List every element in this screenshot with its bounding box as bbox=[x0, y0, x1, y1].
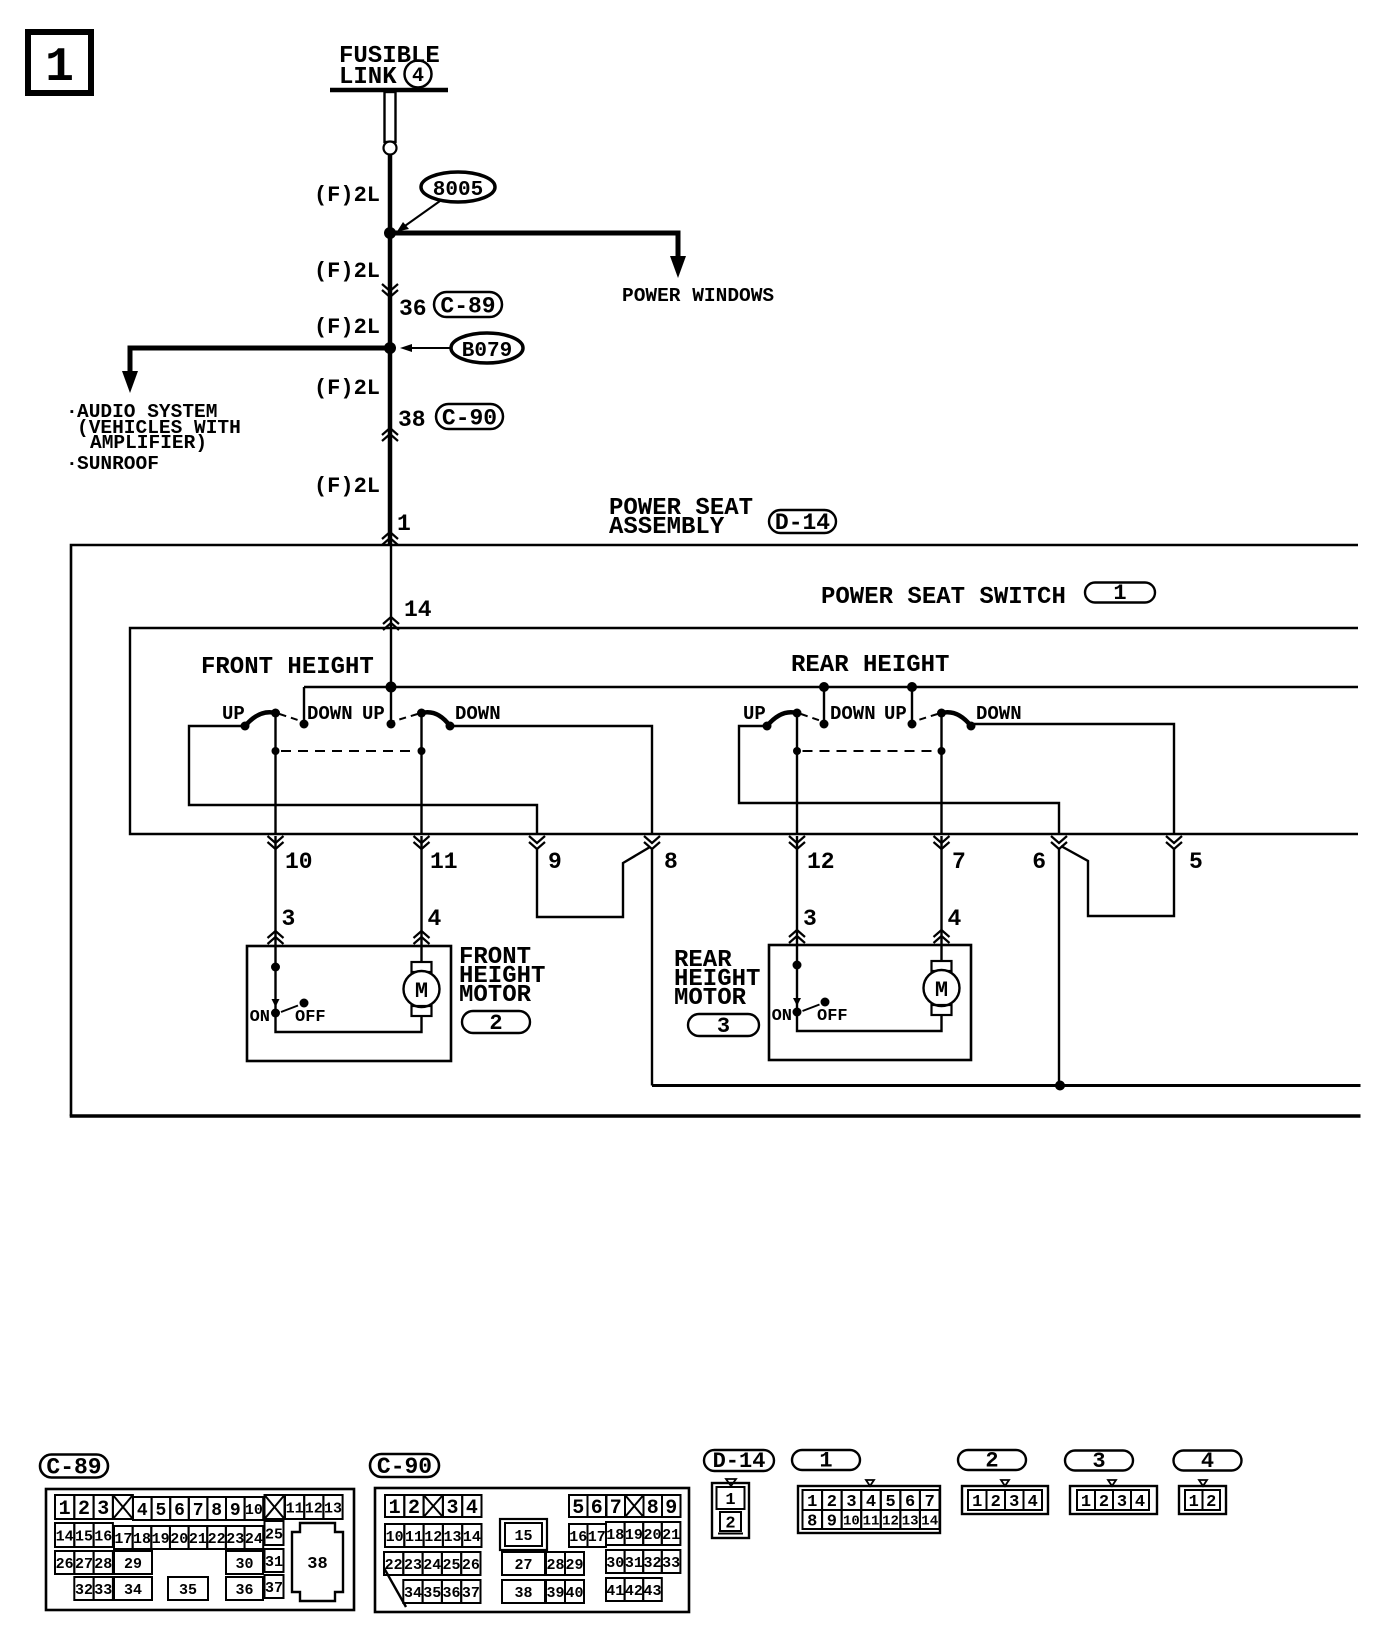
front motor return wire bbox=[276, 1013, 422, 1032]
svg-text:20: 20 bbox=[643, 1527, 661, 1544]
connector ref C-90 bbox=[436, 404, 503, 429]
svg-text:UP: UP bbox=[362, 703, 385, 725]
svg-text:5: 5 bbox=[155, 1501, 166, 1521]
wire: rear-left pivot down (pin 12) bbox=[796, 713, 798, 834]
svg-text:36: 36 bbox=[235, 1582, 253, 1599]
junction B079 bbox=[384, 342, 396, 354]
rear switch UP-contact return path bbox=[739, 726, 1059, 834]
svg-text:14: 14 bbox=[921, 1514, 938, 1530]
connector 2 marker bbox=[1001, 1480, 1009, 1486]
junction pin14/bus bbox=[386, 682, 397, 693]
connector C-89 body bbox=[46, 1489, 354, 1610]
wire: bus to front-right UP contact bbox=[390, 687, 392, 725]
svg-text:23: 23 bbox=[226, 1531, 244, 1548]
gang dot rear-right bbox=[938, 747, 946, 755]
chevron pin 9 bbox=[529, 836, 545, 849]
svg-text:38: 38 bbox=[514, 1585, 532, 1602]
svg-text:41: 41 bbox=[606, 1583, 624, 1600]
chevron assembly pin 1 bbox=[382, 532, 398, 545]
svg-text:2: 2 bbox=[408, 1497, 420, 1520]
svg-text:21: 21 bbox=[189, 1531, 207, 1548]
connector C-90 body bbox=[375, 1488, 689, 1612]
splice label 8005 bbox=[421, 172, 495, 202]
svg-text:D-14: D-14 bbox=[713, 1449, 766, 1474]
svg-text:11: 11 bbox=[863, 1514, 880, 1530]
rear motor M bbox=[940, 945, 942, 961]
svg-text:ON: ON bbox=[250, 1008, 270, 1027]
svg-text:1: 1 bbox=[1189, 1493, 1199, 1512]
circled 4 bbox=[405, 61, 432, 88]
svg-text:MOTOR: MOTOR bbox=[674, 985, 747, 1012]
svg-text:17: 17 bbox=[588, 1529, 606, 1546]
chevron pin 5 bbox=[1166, 836, 1182, 849]
wire: branch to audio system / sunroof bbox=[130, 348, 390, 372]
svg-text:19: 19 bbox=[152, 1531, 170, 1548]
C-89 pin 38 (large) bbox=[292, 1523, 343, 1601]
svg-text:9: 9 bbox=[665, 1497, 677, 1520]
svg-text:19: 19 bbox=[625, 1527, 643, 1544]
connector 4 label bbox=[1174, 1451, 1242, 1471]
stub: bus to front-left DOWN contact bbox=[303, 687, 305, 725]
page frame box 1 bbox=[28, 32, 91, 93]
front motor internal circuit bbox=[274, 946, 276, 1009]
svg-text:8: 8 bbox=[211, 1501, 222, 1521]
switch rear-right (rests on DOWN) bbox=[942, 712, 972, 726]
svg-text:FRONT HEIGHT: FRONT HEIGHT bbox=[201, 654, 374, 681]
svg-text:C-90: C-90 bbox=[442, 406, 497, 432]
front ON contact bbox=[271, 1009, 280, 1018]
wire 9 jog to pin 8 bbox=[537, 847, 650, 917]
rear limit contact marks bbox=[793, 998, 801, 1006]
svg-text:3: 3 bbox=[282, 906, 296, 932]
svg-text:18: 18 bbox=[133, 1531, 151, 1548]
chevron rear motor pin 4 bbox=[934, 930, 950, 943]
svg-text:8: 8 bbox=[647, 1497, 659, 1520]
connector 2 body bbox=[962, 1486, 1048, 1514]
chevron pin 6 bbox=[1051, 836, 1067, 849]
svg-text:(F)2L: (F)2L bbox=[314, 474, 380, 499]
C-89 row4 pins 32-37 bbox=[74, 1577, 93, 1600]
svg-text:36: 36 bbox=[443, 1585, 461, 1602]
svg-text:3: 3 bbox=[447, 1497, 459, 1520]
C-89 row1 pins 1-13 bbox=[55, 1495, 74, 1519]
C-90 bottom-left key notch bbox=[384, 1568, 406, 1607]
svg-text:M: M bbox=[415, 979, 428, 1004]
connector 1 pins 1-14 bbox=[803, 1490, 823, 1510]
gang dot front-left bbox=[272, 747, 280, 755]
fusible link end circle bbox=[384, 142, 397, 155]
svg-text:3: 3 bbox=[803, 906, 817, 932]
connector C-90 label bbox=[370, 1454, 439, 1477]
svg-text:AMPLIFIER): AMPLIFIER) bbox=[90, 432, 207, 454]
svg-text:1: 1 bbox=[1113, 581, 1126, 606]
wire: pin1 to pin14 (inside assembly) bbox=[390, 545, 392, 687]
svg-text:SUNROOF: SUNROOF bbox=[77, 453, 159, 475]
svg-text:5: 5 bbox=[1189, 849, 1203, 875]
chevron front motor pin 3 bbox=[268, 931, 284, 944]
svg-text:1: 1 bbox=[389, 1497, 401, 1520]
svg-text:38: 38 bbox=[398, 407, 426, 433]
svg-text:24: 24 bbox=[245, 1531, 263, 1548]
connector 4 pins 1-2 bbox=[1185, 1490, 1203, 1510]
C-90 row3 pins 22-33 bbox=[384, 1552, 403, 1575]
svg-text:14: 14 bbox=[404, 597, 432, 623]
wire 12 to rear motor pin 3 bbox=[796, 836, 798, 945]
svg-text:28: 28 bbox=[546, 1557, 564, 1574]
svg-text:39: 39 bbox=[546, 1585, 564, 1602]
chevron in-connector C-89 pin36 bbox=[382, 284, 398, 297]
connector 3 pins 1-4 bbox=[1077, 1490, 1095, 1510]
svg-text:6: 6 bbox=[591, 1497, 603, 1520]
svg-text:27: 27 bbox=[75, 1556, 93, 1573]
rear limit switch arm bbox=[803, 1005, 820, 1012]
junction wire6/wire8 bbox=[1055, 1081, 1065, 1091]
svg-text:17: 17 bbox=[114, 1531, 132, 1548]
svg-text:2: 2 bbox=[725, 1515, 735, 1534]
junction rear limit switch bbox=[793, 961, 802, 970]
svg-text:UP: UP bbox=[884, 703, 907, 725]
svg-text:4: 4 bbox=[948, 906, 962, 932]
svg-text:C-89: C-89 bbox=[440, 294, 495, 320]
svg-text:4: 4 bbox=[1135, 1493, 1145, 1512]
rear DOWN-contact wire to pin 5 bbox=[971, 724, 1174, 834]
wire 11 to front motor pin 4 bbox=[420, 836, 422, 945]
svg-text:27: 27 bbox=[514, 1557, 532, 1574]
chevron switch pin 14 bbox=[383, 617, 399, 630]
svg-text:35: 35 bbox=[423, 1585, 441, 1602]
svg-text:B079: B079 bbox=[462, 340, 512, 363]
svg-text:C-89: C-89 bbox=[46, 1454, 101, 1480]
svg-text:MOTOR: MOTOR bbox=[459, 982, 532, 1009]
chevron pin 7 bbox=[934, 836, 950, 849]
svg-text:1: 1 bbox=[725, 1491, 735, 1510]
svg-text:REAR HEIGHT: REAR HEIGHT bbox=[791, 652, 949, 679]
svg-text:OFF: OFF bbox=[295, 1008, 326, 1027]
svg-text:2: 2 bbox=[1099, 1493, 1109, 1512]
svg-text:31: 31 bbox=[625, 1555, 643, 1572]
svg-text:(F)2L: (F)2L bbox=[314, 183, 380, 208]
svg-text:1: 1 bbox=[819, 1448, 832, 1473]
svg-text:3: 3 bbox=[1117, 1493, 1127, 1512]
chevron pin 8 bbox=[644, 836, 660, 849]
wire 7 to rear motor pin 4 bbox=[940, 836, 942, 945]
svg-text:8005: 8005 bbox=[433, 179, 483, 202]
connector 4 marker bbox=[1199, 1480, 1207, 1486]
svg-text:26: 26 bbox=[56, 1556, 74, 1573]
svg-text:38: 38 bbox=[307, 1555, 327, 1574]
splice label B079 bbox=[451, 333, 523, 363]
wire: branch to power windows bbox=[390, 233, 678, 258]
svg-text:14: 14 bbox=[463, 1529, 481, 1546]
svg-text:UP: UP bbox=[743, 703, 766, 725]
stub: bus to rear-left DOWN contact bbox=[823, 687, 825, 725]
fusible link bus bar bbox=[330, 88, 448, 93]
svg-text:UP: UP bbox=[222, 703, 245, 725]
svg-text:4: 4 bbox=[1028, 1493, 1038, 1512]
arrow from B079 to junction bbox=[406, 347, 451, 349]
connector 2 label bbox=[958, 1450, 1026, 1470]
svg-text:5: 5 bbox=[572, 1497, 584, 1520]
svg-text:3: 3 bbox=[97, 1498, 109, 1521]
svg-text:ON: ON bbox=[772, 1007, 792, 1026]
svg-text:18: 18 bbox=[606, 1527, 624, 1544]
wire 10 to front motor pin 3 bbox=[274, 836, 276, 945]
svg-text:12: 12 bbox=[807, 849, 835, 875]
chevron pin 10 bbox=[268, 836, 284, 849]
svg-text:35: 35 bbox=[179, 1582, 197, 1599]
front limit switch arm bbox=[281, 1006, 298, 1013]
chevron pin 11 bbox=[414, 836, 430, 849]
svg-text:(F)2L: (F)2L bbox=[314, 376, 380, 401]
chevron in-connector C-90 pin38 bbox=[382, 428, 398, 441]
svg-text:DOWN: DOWN bbox=[830, 703, 876, 725]
svg-text:2: 2 bbox=[991, 1493, 1001, 1512]
svg-text:37: 37 bbox=[462, 1585, 480, 1602]
wire: splice 8005 to splice B079 bbox=[388, 233, 393, 350]
svg-text:9: 9 bbox=[827, 1513, 837, 1532]
svg-text:9: 9 bbox=[548, 849, 562, 875]
arrowhead power windows bbox=[670, 256, 686, 278]
svg-text:13: 13 bbox=[444, 1529, 462, 1546]
svg-text:13: 13 bbox=[324, 1500, 342, 1517]
junction bus/rear-right stub bbox=[907, 682, 917, 692]
svg-text:9: 9 bbox=[230, 1501, 241, 1521]
svg-text:10: 10 bbox=[386, 1529, 404, 1546]
arrowhead audio branch bbox=[122, 371, 138, 393]
power seat assembly box bbox=[71, 545, 1358, 1116]
svg-text:30: 30 bbox=[606, 1555, 624, 1572]
svg-text:POWER SEAT SWITCH: POWER SEAT SWITCH bbox=[821, 584, 1066, 611]
junction bus/rear-left stub bbox=[819, 682, 829, 692]
svg-text:10: 10 bbox=[285, 849, 313, 875]
front limit contact marks bbox=[272, 999, 280, 1007]
svg-text:25: 25 bbox=[443, 1557, 461, 1574]
svg-text:11: 11 bbox=[286, 1500, 304, 1517]
front switch UP-contact return path bbox=[189, 726, 537, 834]
svg-text:ASSEMBLY: ASSEMBLY bbox=[609, 514, 725, 541]
rear motor internal circuit bbox=[796, 945, 798, 1008]
C-90 pin 15 keyed cell bbox=[500, 1519, 547, 1550]
svg-text:12: 12 bbox=[305, 1500, 323, 1517]
svg-text:C-90: C-90 bbox=[377, 1454, 432, 1480]
rear OFF contact bbox=[821, 998, 830, 1007]
connector 3 label bbox=[1065, 1451, 1133, 1471]
connector 3 marker bbox=[1108, 1480, 1116, 1486]
svg-text:11: 11 bbox=[405, 1529, 423, 1546]
svg-text:10: 10 bbox=[843, 1514, 860, 1530]
svg-text:1: 1 bbox=[1081, 1493, 1091, 1512]
junction front limit switch bbox=[271, 963, 280, 972]
switch front-left (rests on UP) bbox=[245, 712, 276, 726]
connector 2 pins 1-4 bbox=[968, 1490, 987, 1510]
motor ref 2 bbox=[462, 1011, 530, 1033]
svg-text:1: 1 bbox=[972, 1493, 982, 1512]
svg-text:4: 4 bbox=[137, 1501, 148, 1521]
svg-text:OFF: OFF bbox=[817, 1007, 848, 1026]
svg-text:2: 2 bbox=[1206, 1493, 1216, 1512]
rear height motor box bbox=[769, 945, 971, 1060]
connector 4 body bbox=[1179, 1486, 1226, 1514]
svg-text:43: 43 bbox=[643, 1583, 661, 1600]
front DOWN-contact wire to pin 8 bbox=[450, 726, 652, 834]
gang dashed link front bbox=[281, 750, 416, 752]
svg-text:37: 37 bbox=[265, 1580, 283, 1597]
svg-text:30: 30 bbox=[235, 1556, 253, 1573]
svg-text:DOWN: DOWN bbox=[976, 703, 1022, 725]
svg-text:12: 12 bbox=[882, 1514, 899, 1530]
svg-text:·: · bbox=[66, 453, 78, 475]
svg-text:1: 1 bbox=[45, 41, 74, 95]
chevron front motor pin 4 bbox=[414, 931, 430, 944]
front motor M bbox=[420, 946, 422, 962]
gang dot front-right bbox=[418, 747, 426, 755]
C-90 row2 pins 10-21 bbox=[385, 1524, 404, 1547]
svg-text:36: 36 bbox=[399, 296, 427, 322]
switch ref 1 bbox=[1085, 583, 1155, 603]
wire: B079 to power seat assembly bbox=[388, 348, 393, 545]
svg-text:2: 2 bbox=[489, 1011, 502, 1036]
svg-text:DOWN: DOWN bbox=[307, 703, 353, 725]
svg-text:23: 23 bbox=[404, 1557, 422, 1574]
connector 1 marker bbox=[866, 1480, 874, 1486]
svg-text:33: 33 bbox=[94, 1582, 112, 1599]
svg-text:22: 22 bbox=[208, 1531, 226, 1548]
svg-text:1: 1 bbox=[59, 1498, 71, 1521]
chevron rear motor pin 3 bbox=[789, 930, 805, 943]
connector D-14 label bbox=[704, 1450, 774, 1471]
switch front-right (rests on DOWN) bbox=[422, 712, 451, 726]
svg-text:29: 29 bbox=[124, 1556, 142, 1573]
connector 3 body bbox=[1070, 1486, 1157, 1514]
svg-text:(F)2L: (F)2L bbox=[314, 315, 380, 340]
svg-text:4: 4 bbox=[466, 1497, 478, 1520]
svg-text:42: 42 bbox=[625, 1583, 643, 1600]
svg-text:32: 32 bbox=[643, 1555, 661, 1572]
svg-text:34: 34 bbox=[404, 1585, 422, 1602]
svg-text:16: 16 bbox=[94, 1528, 112, 1545]
rear motor return wire bbox=[797, 1012, 942, 1031]
svg-text:25: 25 bbox=[265, 1526, 283, 1543]
svg-text:2: 2 bbox=[985, 1448, 998, 1473]
svg-text:·: · bbox=[66, 401, 78, 423]
svg-text:4: 4 bbox=[1201, 1449, 1214, 1474]
chevron pin 12 bbox=[789, 836, 805, 849]
front height motor box bbox=[247, 946, 451, 1061]
svg-text:LINK: LINK bbox=[339, 64, 397, 91]
C-90 row4 pins 34-43 bbox=[403, 1580, 422, 1603]
wire: rear-right pivot down (pin 7) bbox=[940, 713, 942, 834]
gang dot rear-left bbox=[793, 747, 801, 755]
D-14 marker bbox=[726, 1479, 736, 1486]
svg-text:29: 29 bbox=[565, 1557, 583, 1574]
svg-text:14: 14 bbox=[56, 1528, 74, 1545]
svg-text:16: 16 bbox=[569, 1529, 587, 1546]
connector ref D-14 bbox=[769, 510, 836, 533]
svg-text:2: 2 bbox=[78, 1498, 90, 1521]
svg-text:7: 7 bbox=[610, 1497, 622, 1520]
svg-text:34: 34 bbox=[124, 1582, 142, 1599]
connector D-14 body bbox=[712, 1483, 749, 1538]
svg-text:4: 4 bbox=[412, 65, 424, 88]
connector C-89 label bbox=[40, 1455, 108, 1478]
bus wire from pin 14 bbox=[304, 686, 1358, 688]
svg-text:7: 7 bbox=[952, 849, 966, 875]
svg-text:32: 32 bbox=[75, 1582, 93, 1599]
wire 8/6 horizontal to right edge bbox=[652, 1084, 1361, 1087]
connector 1 body bbox=[798, 1486, 940, 1533]
arrow from 8005 to junction bbox=[402, 201, 440, 228]
svg-text:4: 4 bbox=[428, 906, 442, 932]
svg-text:13: 13 bbox=[902, 1514, 919, 1530]
wire: front-right pivot down (pin 11) bbox=[420, 713, 422, 834]
wire: front-left pivot down (pin 10) bbox=[274, 713, 276, 834]
svg-text:40: 40 bbox=[565, 1585, 583, 1602]
front OFF contact bbox=[300, 999, 309, 1008]
svg-text:8: 8 bbox=[664, 849, 678, 875]
C-89 row3 pins 26-31 bbox=[55, 1551, 74, 1574]
svg-text:6: 6 bbox=[174, 1501, 185, 1521]
svg-text:10: 10 bbox=[245, 1502, 263, 1519]
switch rear-left (rests on UP) bbox=[767, 712, 797, 726]
fusible link body bbox=[385, 92, 396, 142]
svg-text:12: 12 bbox=[424, 1529, 442, 1546]
svg-text:22: 22 bbox=[385, 1557, 403, 1574]
junction 8005 bbox=[384, 227, 396, 239]
power seat switch box bbox=[130, 628, 1358, 834]
svg-text:24: 24 bbox=[423, 1557, 441, 1574]
svg-text:D-14: D-14 bbox=[775, 510, 830, 536]
wire 6 down to junction bbox=[1058, 848, 1060, 1086]
svg-text:31: 31 bbox=[265, 1554, 283, 1571]
svg-text:20: 20 bbox=[170, 1531, 188, 1548]
gang dashed link rear bbox=[803, 750, 937, 752]
svg-text:(F)2L: (F)2L bbox=[314, 259, 380, 284]
stub: bus to rear-right UP contact bbox=[911, 687, 913, 725]
svg-text:3: 3 bbox=[1092, 1449, 1105, 1474]
connector ref C-89 bbox=[434, 292, 502, 317]
svg-text:6: 6 bbox=[1032, 849, 1046, 875]
svg-text:DOWN: DOWN bbox=[455, 703, 501, 725]
C-90 row1 pins 1-9 bbox=[385, 1495, 404, 1517]
wire 5 jog to pin 6 bbox=[1061, 846, 1174, 916]
svg-text:3: 3 bbox=[717, 1014, 730, 1039]
svg-text:15: 15 bbox=[514, 1528, 532, 1545]
C-89 row2 pins 14-25 bbox=[55, 1523, 74, 1547]
svg-text:26: 26 bbox=[462, 1557, 480, 1574]
svg-text:11: 11 bbox=[430, 849, 458, 875]
svg-text:3: 3 bbox=[1009, 1493, 1019, 1512]
wire 8 down (below pin 8) bbox=[651, 848, 653, 1086]
rear ON contact bbox=[793, 1008, 802, 1017]
connector 1 label bbox=[792, 1450, 860, 1470]
svg-text:33: 33 bbox=[662, 1555, 680, 1572]
svg-text:1: 1 bbox=[397, 511, 411, 537]
svg-text:M: M bbox=[935, 978, 948, 1003]
svg-text:21: 21 bbox=[662, 1527, 680, 1544]
motor ref 3 bbox=[688, 1014, 759, 1036]
svg-text:POWER WINDOWS: POWER WINDOWS bbox=[622, 285, 774, 307]
wire: fusible link to splice 8005 bbox=[388, 155, 393, 237]
svg-text:8: 8 bbox=[807, 1513, 817, 1532]
svg-text:15: 15 bbox=[75, 1528, 93, 1545]
svg-text:28: 28 bbox=[94, 1556, 112, 1573]
svg-text:7: 7 bbox=[193, 1501, 204, 1521]
